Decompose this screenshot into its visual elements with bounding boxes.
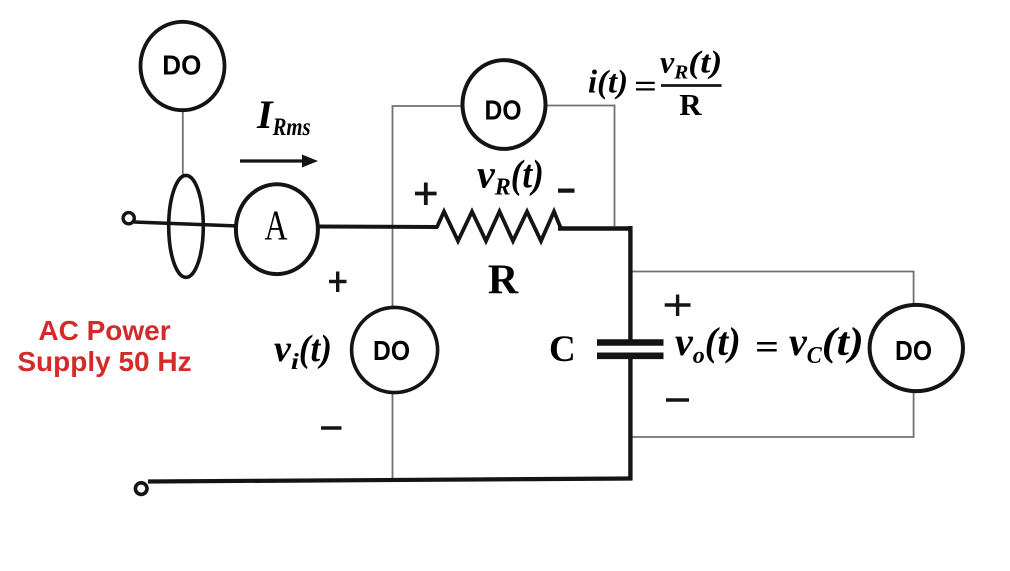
svg-text:=: = xyxy=(634,69,657,105)
terminal xyxy=(123,213,134,224)
svg-text:A: A xyxy=(265,204,288,250)
label C xyxy=(549,329,576,370)
label vi(t) xyxy=(274,328,332,374)
svg-text:AC Power: AC Power xyxy=(38,315,170,346)
svg-text:=: = xyxy=(755,327,779,367)
wire xyxy=(631,436,915,438)
svg-text:IRms: IRms xyxy=(256,92,311,141)
wire xyxy=(134,222,238,226)
wire xyxy=(392,106,394,481)
wire xyxy=(628,226,632,340)
terminal xyxy=(135,483,147,495)
svg-text:vR(t): vR(t) xyxy=(477,152,544,201)
svg-text:DO: DO xyxy=(485,95,522,126)
svg-text:Supply 50 Hz: Supply 50 Hz xyxy=(17,346,191,377)
wire xyxy=(628,359,632,480)
wire xyxy=(148,479,633,482)
wire xyxy=(318,225,438,230)
label i(t) equation xyxy=(588,44,722,123)
capacitor C xyxy=(597,343,664,356)
resistor R xyxy=(437,212,561,242)
label minus vo xyxy=(666,398,689,401)
label plus vi xyxy=(329,272,347,293)
wire xyxy=(614,105,616,226)
wire xyxy=(546,105,615,107)
label AC Power Supply 50 Hz xyxy=(17,315,191,377)
svg-text:R: R xyxy=(679,87,702,122)
wire xyxy=(913,272,915,438)
oscilloscope DO1 xyxy=(141,22,225,110)
label plus vo xyxy=(665,295,691,317)
wire xyxy=(631,271,915,273)
label R xyxy=(488,258,519,304)
label minus vi xyxy=(321,426,342,429)
svg-text:C: C xyxy=(549,329,576,370)
ammeter A xyxy=(236,184,318,274)
oscilloscope DO3 xyxy=(352,307,438,392)
svg-text:vo(t): vo(t) xyxy=(675,319,741,369)
label minus vR xyxy=(558,189,575,193)
label vR(t) xyxy=(477,152,544,201)
svg-text:i(t): i(t) xyxy=(588,65,628,101)
svg-text:DO: DO xyxy=(895,335,932,366)
svg-text:vR(t): vR(t) xyxy=(660,44,722,84)
svg-text:R: R xyxy=(488,258,519,304)
label IRms xyxy=(256,92,311,141)
svg-text:vi(t): vi(t) xyxy=(274,328,332,374)
current clamp xyxy=(169,175,204,277)
svg-text:vC(t): vC(t) xyxy=(789,319,864,369)
wire xyxy=(182,108,184,176)
current arrow xyxy=(240,155,318,168)
oscilloscope DO4 xyxy=(870,305,963,391)
wire xyxy=(558,226,633,231)
label vo(t)=vC(t) xyxy=(675,319,864,369)
svg-text:DO: DO xyxy=(373,335,410,366)
oscilloscope DO2 xyxy=(463,60,546,149)
svg-text:DO: DO xyxy=(162,50,201,81)
wire xyxy=(392,105,463,107)
label plus vR xyxy=(415,183,437,206)
